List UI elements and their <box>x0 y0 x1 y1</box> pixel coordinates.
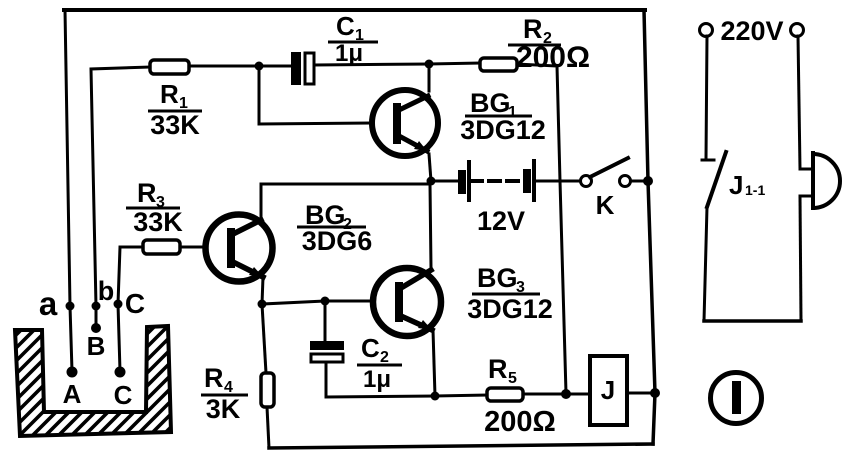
electrode B tip <box>91 323 101 333</box>
svg-text:C: C <box>361 333 380 363</box>
wire bottom <box>269 444 653 448</box>
capacitor C2 <box>310 341 344 362</box>
wire battery left <box>431 180 458 183</box>
svg-text:K: K <box>596 190 615 220</box>
label J1-1 <box>729 170 765 200</box>
svg-text:A: A <box>63 379 82 409</box>
resistor R2 <box>480 58 517 71</box>
wire C1 to node <box>314 64 429 65</box>
wire 220V left down <box>706 36 707 159</box>
label BG3/3DG12 <box>467 263 553 324</box>
electrode A tip <box>67 367 78 378</box>
svg-text:BG: BG <box>470 88 511 118</box>
svg-text:12V: 12V <box>477 206 525 236</box>
node junction dots <box>255 60 661 401</box>
svg-text:200Ω: 200Ω <box>516 41 590 74</box>
svg-text:BG: BG <box>477 263 518 293</box>
svg-text:3DG12: 3DG12 <box>467 294 553 324</box>
svg-text:R: R <box>204 363 224 393</box>
label R2/200ohm <box>508 14 590 74</box>
relay coil J <box>590 356 627 425</box>
transistor BG1 <box>372 90 438 156</box>
wire node to R5 <box>435 395 487 396</box>
wire 220V bottom <box>704 319 801 323</box>
svg-text:220V: 220V <box>720 16 783 46</box>
resistor R4 <box>261 373 274 407</box>
wire R4 to bottom <box>267 407 269 448</box>
resistor R1 <box>150 60 189 74</box>
wire right frame <box>644 10 655 444</box>
terminal 220V left <box>700 24 713 37</box>
svg-text:R: R <box>523 14 543 44</box>
wire left lower <box>704 207 707 321</box>
node c <box>114 300 123 309</box>
wire R1 right to node <box>189 65 259 68</box>
wire R3 left to electrode c <box>118 247 143 371</box>
wire node to C1 <box>259 65 291 68</box>
tank <box>0 0 665 455</box>
electrode C tip <box>115 367 126 378</box>
node a <box>66 302 75 311</box>
transistor BG3 <box>373 268 441 336</box>
svg-text:3DG6: 3DG6 <box>302 226 373 256</box>
bell <box>813 153 840 208</box>
wire 220V right up <box>798 36 800 169</box>
wire R2 right down to R5/J node <box>516 64 566 393</box>
wire J right to frame <box>627 392 655 395</box>
label BG2/3DG6 <box>297 200 372 256</box>
wire right lower <box>800 196 801 321</box>
svg-text:R: R <box>160 79 179 109</box>
svg-text:R: R <box>488 354 508 384</box>
svg-text:a: a <box>39 285 58 322</box>
label C2/1u <box>357 333 402 393</box>
wire node to R4 <box>262 304 266 373</box>
label BG1/3DG12 <box>460 88 546 145</box>
terminal 220V right <box>791 24 804 37</box>
svg-text:C: C <box>125 288 145 319</box>
wire node to C2 <box>324 301 327 342</box>
bell stub top <box>800 168 813 171</box>
svg-text:33K: 33K <box>133 207 183 237</box>
wire R1 left to electrode b <box>91 67 150 327</box>
figure number 1 <box>711 373 762 424</box>
resistor R5 <box>487 388 523 401</box>
wire top frame <box>64 8 645 12</box>
wire R5 to J <box>522 393 590 396</box>
svg-text:1-1: 1-1 <box>745 182 765 198</box>
label R5 <box>488 354 517 387</box>
svg-text:5: 5 <box>508 370 517 387</box>
contact fixed tick <box>702 159 714 162</box>
wire R3 right to BG2 base <box>180 246 207 249</box>
svg-text:1μ: 1μ <box>363 366 391 393</box>
svg-text:1μ: 1μ <box>335 40 363 67</box>
battery 12V <box>458 159 536 202</box>
node b <box>92 302 101 311</box>
svg-text:33K: 33K <box>150 110 200 140</box>
bell stub bottom <box>800 195 813 198</box>
label R1/33K <box>148 79 202 140</box>
wire battery right to switch <box>537 180 580 183</box>
svg-text:2: 2 <box>380 349 389 366</box>
svg-text:3K: 3K <box>206 394 241 424</box>
resistor R3 <box>143 240 180 254</box>
wire BG3 emitter down <box>433 330 435 396</box>
transistor BG2 <box>206 215 273 282</box>
svg-text:b: b <box>98 276 115 306</box>
wire BG1 base <box>259 66 371 124</box>
wire left frame / electrode a lead <box>65 10 72 371</box>
svg-text:C: C <box>336 11 355 41</box>
relay contact J1-1 <box>707 152 726 207</box>
wire junction to BG2 collector <box>261 181 431 219</box>
wire battery middle dashed <box>471 179 523 183</box>
wire C2 to emitter node <box>326 361 435 397</box>
switch K <box>581 158 631 187</box>
svg-text:200Ω: 200Ω <box>484 406 556 438</box>
wire BG1 emitter <box>429 154 431 181</box>
wire BG2 emitter down <box>262 277 263 304</box>
wire switch K to frame <box>631 180 648 183</box>
label C1/1u <box>328 11 378 67</box>
svg-text:3DG12: 3DG12 <box>460 115 546 145</box>
svg-text:C: C <box>114 380 133 410</box>
svg-text:J: J <box>601 375 615 405</box>
wire junction to BG3 collector <box>430 184 431 268</box>
wire node to R2 <box>429 63 480 64</box>
capacitor C1 <box>291 52 314 85</box>
wire emitter node row <box>262 301 373 304</box>
svg-text:R: R <box>137 178 157 208</box>
label R3/33K <box>126 178 183 237</box>
label R4/3K <box>201 363 248 424</box>
svg-text:B: B <box>87 331 106 361</box>
svg-text:J: J <box>729 170 743 200</box>
wire BG1 collector <box>428 64 431 91</box>
